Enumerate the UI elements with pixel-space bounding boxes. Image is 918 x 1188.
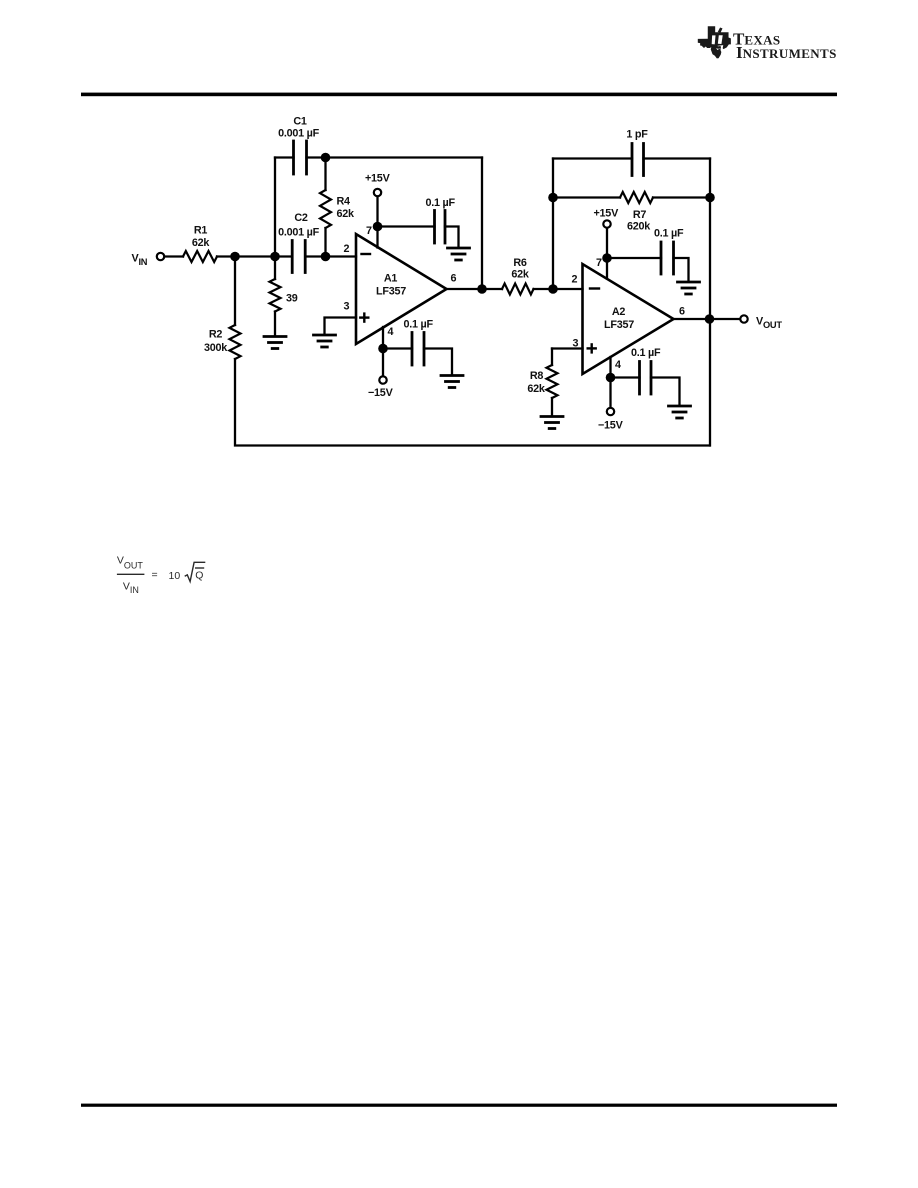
svg-text:0.1 µF: 0.1 µF: [654, 228, 684, 240]
wire pin4 to bypass cap A2: [611, 376, 640, 378]
node junction R1/R2: [230, 252, 240, 262]
wire pin4 to bypass cap A1: [383, 347, 412, 349]
svg-text:10: 10: [169, 570, 181, 582]
wire R8 to ground: [551, 398, 553, 415]
node pin7 A1: [373, 222, 383, 232]
svg-text:C1: C1: [293, 116, 307, 128]
wire cap to ground (A2 pin7): [674, 258, 689, 281]
node R7 right: [705, 193, 715, 203]
svg-text:VIN: VIN: [123, 581, 139, 596]
wire R7 left: [553, 196, 620, 198]
svg-text:R2: R2: [209, 329, 223, 341]
capacitor C1: [294, 141, 307, 174]
wire C2 to pin2 A1: [305, 255, 356, 257]
wire branch down to 39: [274, 257, 276, 280]
wire pin4 A2: [609, 357, 611, 407]
+15V terminal A1: [374, 189, 381, 196]
svg-text:−15V: −15V: [368, 387, 394, 399]
formula radical: [185, 562, 206, 581]
ground (39): [264, 337, 286, 349]
svg-text:Q: Q: [195, 570, 203, 582]
resistor 39: [270, 279, 281, 312]
resistor R7: [620, 192, 653, 203]
svg-text:62k: 62k: [192, 237, 211, 249]
svg-text:LF357: LF357: [376, 286, 406, 298]
bypass capacitor 0.1uF (A2 pin7): [661, 242, 674, 274]
TI logo: [698, 26, 837, 62]
wire +15V to pin7 A2: [606, 229, 608, 279]
node R7 left: [548, 193, 558, 203]
svg-text:R4: R4: [337, 196, 351, 208]
node pin4 A1: [378, 344, 388, 354]
wire cap to ground (A1 pin7): [445, 227, 459, 247]
node junction C1/R4: [321, 153, 331, 163]
wire R7 right: [653, 196, 710, 198]
bypass capacitor 0.1uF (A1 pin4): [412, 333, 424, 366]
svg-text:3: 3: [344, 301, 350, 313]
bottom rule: [81, 1104, 837, 1107]
circuit: [157, 141, 748, 446]
svg-text:R1: R1: [194, 225, 208, 237]
svg-text:0.001 µF: 0.001 µF: [278, 128, 319, 140]
output terminal VOUT: [740, 315, 747, 322]
i dot slash: [718, 27, 723, 32]
node junction 39/C1 branch: [270, 252, 280, 262]
formula fraction bar: [117, 573, 144, 575]
svg-text:VOUT: VOUT: [756, 316, 782, 330]
node A2 output: [705, 314, 715, 324]
svg-text:R7: R7: [633, 209, 647, 221]
TI map bug: [698, 26, 731, 58]
svg-text:0.1 µF: 0.1 µF: [426, 197, 456, 209]
svg-text:6: 6: [679, 306, 685, 318]
top rule: [81, 93, 837, 97]
+15V terminal A2: [603, 220, 610, 227]
wire 1pF right: [644, 157, 711, 159]
svg-text:1 pF: 1 pF: [626, 129, 648, 141]
node pin4 A2: [606, 373, 616, 383]
A2 plus: [588, 344, 596, 352]
wire C1 branch down to output: [481, 158, 483, 290]
svg-text:VOUT: VOUT: [117, 555, 144, 571]
wire A2 output to VOUT: [674, 318, 740, 320]
svg-text:0.1 µF: 0.1 µF: [404, 319, 434, 331]
svg-text:VIN: VIN: [132, 253, 148, 267]
wire R4 bottom: [324, 228, 326, 257]
svg-text:R8: R8: [530, 370, 544, 382]
wire cap to ground (A1 pin4): [424, 349, 452, 375]
svg-text:+15V: +15V: [365, 173, 391, 185]
-15V terminal A2: [607, 408, 614, 415]
resistor R1: [183, 251, 217, 262]
wire branch up to C1: [274, 158, 276, 257]
ground (A2 pin4 bypass): [669, 406, 691, 418]
resistor R6: [502, 284, 534, 295]
node junction R4/C2: [321, 252, 331, 262]
resistor R4: [320, 190, 331, 228]
svg-text:4: 4: [388, 326, 394, 338]
svg-text:A2: A2: [612, 306, 626, 318]
wire C1 left: [275, 156, 294, 158]
svg-text:+15V: +15V: [594, 208, 620, 220]
ground (A1 pin3): [314, 335, 336, 347]
-15V terminal A1: [379, 376, 386, 383]
wire input to R1: [165, 255, 183, 257]
wire R1 to C2: [217, 255, 292, 257]
wire pin7 to bypass cap A2: [607, 257, 661, 259]
wire +15V to pin7 A1: [376, 197, 378, 248]
bypass capacitor 0.1uF (A2 pin4): [640, 362, 652, 395]
bypass capacitor 0.1uF (A1 pin7): [435, 211, 446, 244]
svg-text:300k: 300k: [204, 342, 228, 354]
svg-text:0.001 µF: 0.001 µF: [278, 227, 319, 239]
op-amp A1: [356, 234, 447, 344]
svg-text:INSTRUMENTS: INSTRUMENTS: [736, 43, 837, 62]
svg-text:R6: R6: [513, 257, 527, 269]
op-amp A2: [583, 264, 674, 374]
svg-text:A1: A1: [384, 273, 398, 285]
wire pin3 A2: [552, 347, 583, 349]
ground (A1 pin4 bypass): [441, 376, 463, 388]
wire feedback left vertical A2: [552, 159, 554, 290]
wire R2 top: [234, 257, 236, 326]
formula: [117, 555, 205, 596]
wire A1 output to R6: [447, 288, 503, 290]
resistor R8: [547, 365, 558, 398]
t stem: [716, 33, 721, 48]
labels: [132, 116, 783, 432]
svg-text:4: 4: [615, 359, 621, 371]
wire pin4 A1: [382, 327, 384, 376]
svg-text:7: 7: [596, 257, 602, 269]
formula Q overbar: [195, 567, 204, 569]
wire C1 right to A1 output branch: [307, 156, 483, 158]
A1 minus: [362, 253, 371, 255]
node A1 output: [477, 284, 487, 294]
svg-text:62k: 62k: [511, 269, 530, 281]
wire R4 top: [324, 158, 326, 191]
t white notch left: [712, 35, 716, 44]
A1 plus: [360, 314, 368, 322]
svg-text:62k: 62k: [527, 383, 546, 395]
wire R2 bottom to feedback: [235, 359, 710, 446]
capacitor C2: [292, 241, 305, 273]
wire feedback right vertical: [709, 159, 711, 446]
svg-text:3: 3: [573, 338, 579, 350]
white wedge under arm: [716, 45, 723, 50]
svg-text:2: 2: [572, 274, 578, 286]
svg-text:−15V: −15V: [598, 420, 624, 432]
wire 1pF left: [553, 157, 632, 159]
ground (A2 pin7 bypass): [678, 282, 700, 294]
wire 39 to ground: [274, 312, 276, 336]
svg-text:=: =: [152, 569, 158, 581]
node pin7 A2: [602, 253, 612, 263]
svg-text:2: 2: [344, 243, 350, 255]
i white notch right: [718, 35, 723, 44]
ground (R8): [541, 417, 563, 429]
wire pin3 A1: [325, 318, 357, 334]
wire pin7 to bypass cap A1: [378, 225, 435, 227]
svg-text:C2: C2: [294, 212, 308, 224]
svg-text:LF357: LF357: [604, 319, 634, 331]
ground (A1 pin7 bypass): [448, 248, 470, 260]
node pin2 A2: [548, 284, 558, 294]
wire R6 to pin2 A2: [534, 288, 583, 290]
A2 minus: [590, 287, 599, 289]
svg-text:620k: 620k: [627, 221, 651, 233]
svg-text:39: 39: [286, 293, 298, 305]
wire R8 top: [551, 349, 553, 366]
svg-text:7: 7: [366, 225, 372, 237]
svg-text:0.1 µF: 0.1 µF: [631, 347, 661, 359]
capacitor 1pF: [632, 144, 644, 176]
svg-text:6: 6: [451, 273, 457, 285]
resistor R2: [230, 325, 241, 359]
input terminal VIN: [157, 253, 164, 260]
wire cap to ground (A2 pin4): [651, 378, 680, 405]
svg-text:62k: 62k: [337, 208, 356, 220]
